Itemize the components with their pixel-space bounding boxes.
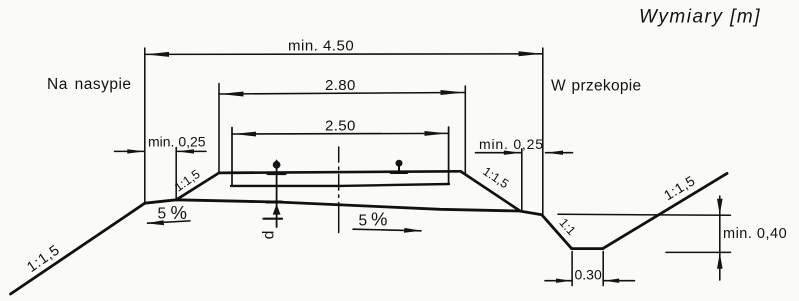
embankment slope 1:1.5 left xyxy=(11,203,145,294)
rail left with d measurement line xyxy=(264,159,286,227)
ditch bottom xyxy=(572,247,603,250)
track centerline (dash-dot) xyxy=(338,147,340,233)
dimension 0.30 xyxy=(545,252,635,286)
ground level line in cutting xyxy=(558,214,731,215)
dimension min. 0,40 xyxy=(717,196,723,280)
svg-text:5%: 5% xyxy=(158,202,187,223)
svg-text:5%: 5% xyxy=(359,209,388,230)
svg-text:0.30: 0.30 xyxy=(575,266,602,282)
svg-text:Na nasypie: Na nasypie xyxy=(47,76,132,93)
svg-text:2.80: 2.80 xyxy=(325,77,356,94)
ditch bottom level tick line xyxy=(666,251,731,253)
dimension min. 0,25 left xyxy=(115,148,207,201)
svg-text:1:1,5: 1:1,5 xyxy=(661,172,698,203)
svg-text:2.50: 2.50 xyxy=(325,118,356,135)
dimension 2.80 xyxy=(219,84,465,175)
dimension min. 0,25 right xyxy=(476,149,573,211)
trackbed box left edge xyxy=(231,128,233,185)
ditch inner slope 1:1 xyxy=(542,215,572,249)
svg-text:min. 0,40: min. 0,40 xyxy=(723,226,787,242)
svg-text:d: d xyxy=(260,231,277,240)
rail right xyxy=(391,160,407,173)
cutting slope 1:1.5 right xyxy=(603,173,727,248)
formation surface line xyxy=(145,200,542,215)
ballast left slope 1:1.5 xyxy=(176,173,219,200)
dimension 2.50 xyxy=(232,127,449,183)
svg-text:W przekopie: W przekopie xyxy=(551,78,641,95)
ballast top line xyxy=(219,171,461,173)
ballast right slope 1:1.5 xyxy=(461,171,520,210)
svg-text:min. 0,25: min. 0,25 xyxy=(479,136,544,152)
svg-text:min. 4.50: min. 4.50 xyxy=(288,38,354,55)
gradient arrow 5% right xyxy=(353,228,422,233)
dimension min. 4.50 xyxy=(145,48,543,215)
trackbed box right edge xyxy=(448,127,450,183)
trackbed box bottom xyxy=(231,184,449,186)
svg-text:Wymiary [m]: Wymiary [m] xyxy=(639,6,761,27)
gradient arrow 5% left xyxy=(147,220,191,225)
svg-text:min. 0,25: min. 0,25 xyxy=(148,133,206,149)
